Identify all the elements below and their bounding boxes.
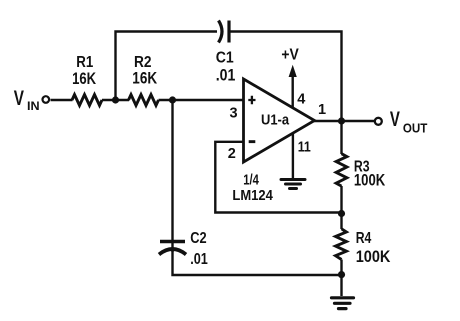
svg-text:16K: 16K bbox=[72, 69, 97, 88]
svg-text:11: 11 bbox=[298, 139, 311, 156]
svg-text:LM124: LM124 bbox=[232, 187, 273, 204]
capacitor C2 bbox=[159, 230, 208, 268]
svg-text:C2: C2 bbox=[190, 230, 206, 247]
svg-text:R4: R4 bbox=[356, 230, 372, 247]
svg-text:V: V bbox=[390, 108, 400, 131]
svg-text:.01: .01 bbox=[216, 65, 236, 84]
node V_IN terminal bbox=[14, 87, 49, 113]
+V supply arrow bbox=[281, 47, 299, 109]
ground (bottom) bbox=[332, 298, 354, 309]
svg-text:2: 2 bbox=[228, 146, 236, 162]
svg-text:U1-a: U1-a bbox=[261, 112, 290, 129]
wire V_IN to R1 bbox=[51, 99, 73, 101]
wire output node to R3 bbox=[340, 121, 342, 154]
resistor R3 bbox=[336, 154, 385, 190]
wire feedback node C to op-amp pin 2 bbox=[215, 142, 341, 213]
wire R2 to op-amp pin 3 bbox=[159, 99, 244, 101]
ground (pin 11) bbox=[281, 180, 305, 189]
svg-text:V: V bbox=[14, 87, 24, 110]
capacitor C1 bbox=[216, 21, 236, 85]
svg-text:+V: +V bbox=[281, 47, 299, 64]
wire node A up to C1 (top feedback left) bbox=[116, 32, 218, 101]
wire op-amp output to V_OUT bbox=[314, 120, 375, 122]
svg-text:C1: C1 bbox=[216, 49, 234, 66]
node C junction bbox=[338, 210, 345, 217]
svg-text:16K: 16K bbox=[132, 69, 157, 88]
svg-text:100K: 100K bbox=[354, 172, 385, 190]
svg-text:1/4: 1/4 bbox=[243, 172, 259, 189]
wire node B down to C2 bbox=[171, 100, 173, 252]
resistor R4 bbox=[336, 229, 391, 266]
resistor R2 bbox=[129, 54, 159, 105]
resistor R1 bbox=[72, 54, 102, 106]
node B junction bbox=[169, 96, 176, 103]
node V_OUT terminal bbox=[375, 108, 428, 136]
wire R4 to ground node bbox=[340, 260, 342, 297]
node D junction bbox=[338, 271, 345, 278]
svg-text:100K: 100K bbox=[356, 248, 391, 266]
svg-text:4: 4 bbox=[297, 91, 305, 107]
wire C1 to output node (top feedback right) bbox=[231, 32, 342, 122]
node A junction bbox=[112, 96, 119, 103]
wire C2 to bottom node bbox=[173, 250, 342, 275]
wire R1 to node A bbox=[102, 99, 129, 101]
wire R3 to node C bbox=[340, 186, 342, 229]
svg-text:1: 1 bbox=[318, 102, 326, 118]
pin 11 wire bbox=[292, 133, 294, 178]
svg-text:IN: IN bbox=[27, 101, 40, 113]
op-amp U1-a bbox=[228, 79, 326, 204]
svg-text:3: 3 bbox=[230, 106, 238, 122]
svg-text:OUT: OUT bbox=[403, 121, 428, 136]
svg-text:.01: .01 bbox=[190, 251, 208, 268]
node OUT junction bbox=[338, 117, 345, 124]
